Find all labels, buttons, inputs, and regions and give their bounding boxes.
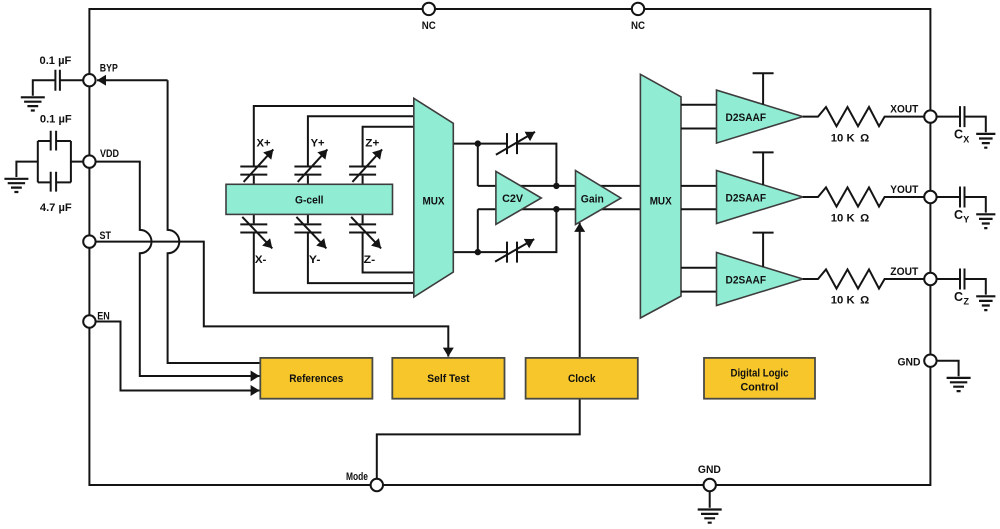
G-cell X loop wires to MUX (254, 106, 415, 293)
pin XOUT (924, 110, 936, 122)
svg-text:D2SAAF: D2SAAF (726, 112, 767, 124)
resistor 10K Z row (803, 269, 924, 288)
svg-text:BYP: BYP (100, 63, 118, 75)
node junction dot D (553, 206, 559, 212)
svg-text:Z+: Z+ (365, 138, 379, 150)
wire C2V/Gain differential bottom rail to MUX2 (478, 208, 641, 210)
svg-text:Y-: Y- (309, 254, 321, 266)
wire Clock top to Gain arrow (579, 223, 581, 358)
svg-text:C: C (954, 208, 963, 222)
capacitor feedback bottom variable (507, 242, 517, 263)
G-cell Y loop wires to MUX (308, 116, 415, 283)
capacitor CZ (937, 269, 986, 295)
svg-text:0.1 µF: 0.1 µF (40, 113, 72, 125)
wire GND right pin to ground (937, 361, 959, 377)
node junction dot B (475, 249, 481, 255)
resistor 10K X row (803, 107, 924, 126)
svg-text:Y: Y (963, 215, 969, 225)
capacitor Y+ variable (294, 167, 321, 175)
wire BYP net from pin to References top input (168, 80, 260, 363)
svg-text:10 K Ω: 10 K Ω (831, 132, 870, 144)
block Clock (526, 358, 638, 399)
capacitor 0.1uF at BYP (33, 70, 83, 96)
ground for BYP capacitor (21, 97, 45, 110)
chip outline border (89, 9, 930, 485)
ground for CX (976, 134, 995, 148)
block Self Test (392, 358, 504, 399)
ground for VDD capacitors (4, 179, 28, 192)
pin BYP (83, 74, 95, 86)
wire ST net to Self Test arrow (96, 242, 449, 357)
pin ZOUT (924, 273, 936, 285)
svg-text:10 K Ω: 10 K Ω (831, 295, 870, 307)
pin NC 2 (632, 3, 644, 15)
pin EN (83, 315, 95, 327)
svg-text:References: References (289, 373, 343, 385)
capacitor CX (937, 106, 986, 132)
wire VDD net to References input arrow (96, 162, 260, 376)
svg-text:0.1 µF: 0.1 µF (40, 55, 72, 67)
switched-cap symbol on D2SAAF Y (753, 152, 774, 185)
block References (260, 358, 372, 399)
svg-text:Mode: Mode (346, 471, 368, 483)
svg-text:GND: GND (898, 357, 921, 369)
svg-text:X-: X- (255, 254, 267, 266)
amplifier D2SAAF Y (717, 171, 803, 224)
wire MUX1 output bottom to C2V input (453, 209, 556, 252)
wire EN net to References input arrow (96, 322, 260, 391)
svg-text:VDD: VDD (100, 148, 119, 160)
svg-text:G-cell: G-cell (295, 195, 324, 207)
capacitor pair 0.1uF / 4.7uF at VDD (16, 131, 83, 192)
pin GND right (924, 355, 936, 367)
capacitor X- variable (240, 224, 267, 232)
svg-text:XOUT: XOUT (890, 104, 918, 116)
capacitor feedback top variable (507, 133, 517, 154)
svg-text:ST: ST (99, 230, 111, 242)
svg-text:X+: X+ (257, 138, 271, 150)
capacitor X+ variable (240, 167, 267, 175)
wire MUX2 to D2SAAF3 pair (681, 268, 718, 292)
svg-text:Z: Z (964, 297, 970, 307)
capacitor Z+ variable (349, 167, 376, 175)
pin VDD (83, 155, 95, 167)
svg-text:NC: NC (631, 20, 645, 32)
block Digital Logic Control (704, 358, 815, 399)
wire Mode net to Clock bottom (377, 399, 580, 479)
svg-text:NC: NC (422, 20, 436, 32)
svg-text:10 K Ω: 10 K Ω (831, 213, 870, 225)
op-amp Gain (576, 171, 621, 225)
wire bottom GND pin to ground (709, 491, 711, 508)
svg-text:YOUT: YOUT (890, 184, 918, 196)
G-cell Z loop wires to MUX (363, 127, 415, 273)
pin ST (83, 235, 95, 247)
svg-text:Z-: Z- (364, 254, 376, 266)
svg-text:Control: Control (741, 381, 779, 393)
svg-text:X: X (963, 134, 969, 144)
wire MUX2 to D2SAAF2 pair (681, 186, 718, 209)
svg-text:4.7 µF: 4.7 µF (40, 202, 72, 214)
svg-text:Self Test: Self Test (427, 373, 470, 385)
pin Mode (371, 479, 383, 491)
svg-text:EN: EN (97, 310, 110, 322)
pin GND bottom (704, 479, 716, 491)
pin NC 1 (423, 3, 435, 15)
pin YOUT (924, 191, 936, 203)
wire MUX2 to D2SAAF1 pair (681, 105, 718, 129)
svg-text:MUX: MUX (650, 195, 672, 207)
op-amp C2V (496, 171, 541, 224)
wire BYP arrow into pin (97, 79, 168, 81)
multiplexer MUX1 (414, 98, 454, 297)
resistor 10K Y row (803, 187, 924, 206)
ground at right GND pin (947, 378, 971, 391)
svg-text:C: C (954, 290, 963, 304)
capacitor CY (937, 187, 986, 213)
svg-text:D2SAAF: D2SAAF (726, 192, 767, 204)
wire MUX1 output top to C2V input (453, 144, 556, 186)
svg-text:Y+: Y+ (311, 138, 325, 150)
svg-text:MUX: MUX (423, 195, 445, 207)
svg-text:Clock: Clock (568, 373, 596, 385)
wire C2V/Gain differential top rail to MUX2 (478, 185, 641, 187)
svg-text:Digital Logic: Digital Logic (731, 367, 789, 379)
capacitor Z- variable (349, 224, 376, 232)
svg-text:C: C (954, 127, 963, 141)
svg-text:D2SAAF: D2SAAF (726, 274, 767, 286)
ground for CY (976, 214, 995, 228)
node junction dot A (475, 140, 481, 146)
svg-text:Gain: Gain (581, 193, 604, 205)
multiplexer MUX2 (640, 74, 681, 318)
svg-text:C2V: C2V (502, 193, 523, 205)
switched-cap symbol on D2SAAF Z (753, 233, 774, 267)
node junction dot C (553, 183, 559, 189)
amplifier D2SAAF Z (717, 253, 803, 306)
amplifier D2SAAF X (717, 90, 803, 143)
switched-cap symbol on D2SAAF X (753, 73, 774, 104)
ground at bottom GND pin (698, 510, 722, 523)
svg-text:ZOUT: ZOUT (890, 266, 918, 278)
capacitor Y- variable (294, 224, 321, 232)
G-cell block (226, 184, 393, 214)
svg-text:GND: GND (698, 464, 721, 476)
ground for CZ (976, 296, 995, 310)
